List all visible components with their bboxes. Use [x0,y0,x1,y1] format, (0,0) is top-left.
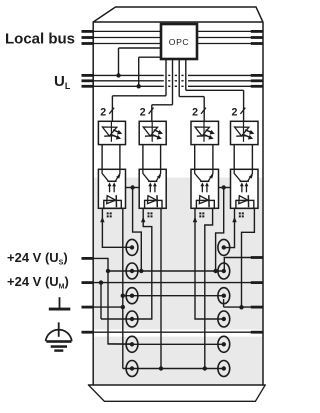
svg-text:2: 2 [100,106,106,118]
svg-text:2: 2 [231,106,237,118]
svg-text:2: 2 [192,106,198,118]
svg-text:+24 V (US): +24 V (US) [7,250,68,266]
svg-text:Local bus: Local bus [5,30,75,47]
svg-text:+24 V (UM): +24 V (UM) [7,274,69,290]
svg-text:UL: UL [54,73,71,91]
svg-text:2: 2 [140,106,146,118]
svg-text:OPC: OPC [169,37,189,47]
